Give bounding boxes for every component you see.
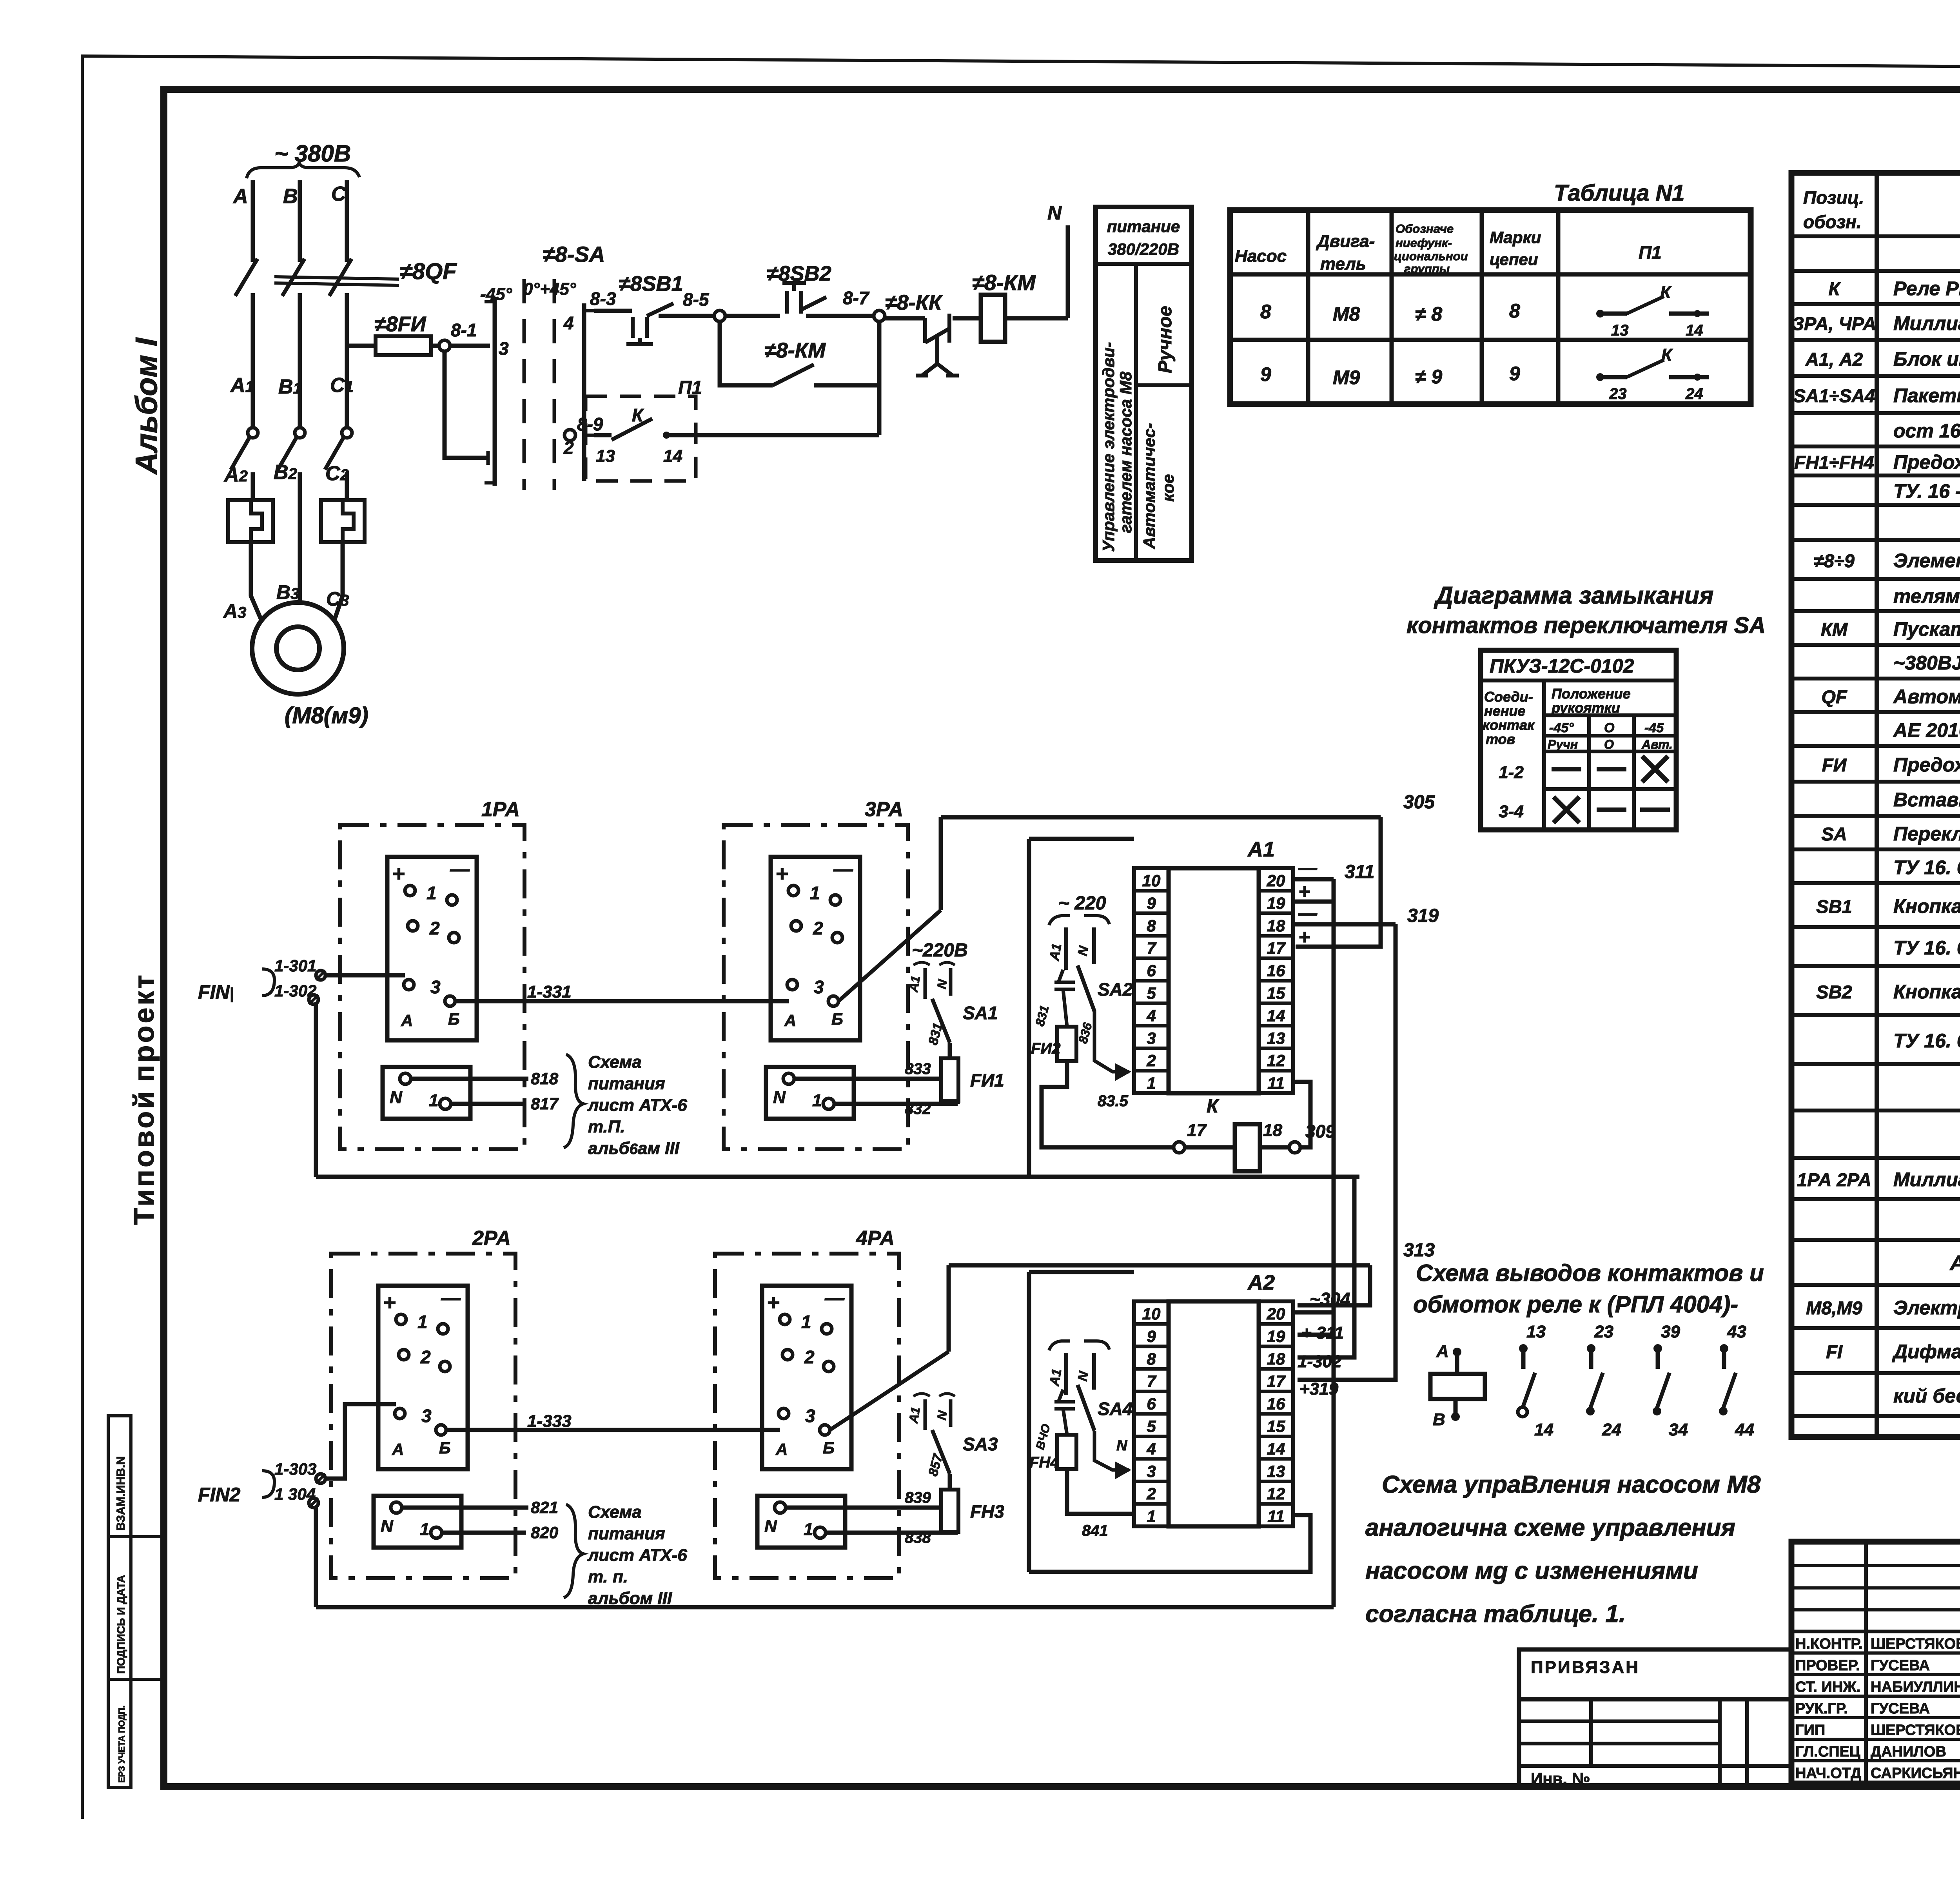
row 3-4 marks xyxy=(1553,797,1579,823)
svg-text:М8,М9: М8,М9 xyxy=(1806,1297,1862,1318)
svg-text:305: 305 xyxy=(1403,792,1435,813)
svg-text:SА1÷SА4: SА1÷SА4 xyxy=(1793,385,1875,406)
svg-text:8-5: 8-5 xyxy=(683,289,710,310)
svg-text:ШЕРСТЯКОВА: ШЕРСТЯКОВА xyxy=(1871,1722,1960,1738)
svg-text:SВ1: SВ1 xyxy=(1816,896,1852,917)
svg-text:+: + xyxy=(383,1290,396,1315)
svg-text:3: 3 xyxy=(1147,1029,1156,1047)
recorder 2РА dash-dot enclosure xyxy=(331,1254,515,1578)
1РА supply terminals box xyxy=(383,1067,470,1119)
phase A input line xyxy=(251,180,255,262)
svg-text:Насос: Насос xyxy=(1235,247,1287,266)
svg-text:1: 1 xyxy=(1147,1507,1156,1526)
svg-text:ПРОВЕР.: ПРОВЕР. xyxy=(1795,1657,1860,1674)
wire 833 xyxy=(794,1077,941,1081)
svg-text:838: 838 xyxy=(905,1529,931,1546)
svg-text:Ручн: Ручн xyxy=(1548,737,1578,751)
svg-text:А: А xyxy=(1436,1342,1449,1361)
svg-text:6: 6 xyxy=(1147,1395,1156,1413)
3РА supply terminals box xyxy=(766,1067,854,1119)
svg-text:РУК.ГР.: РУК.ГР. xyxy=(1795,1700,1848,1717)
wire 817 xyxy=(451,1102,526,1106)
svg-text:≠8QF: ≠8QF xyxy=(400,259,457,284)
bus 304 riser up to A2 terminal 20 xyxy=(1293,1312,1334,1607)
row 1-2 marks xyxy=(1552,767,1581,771)
svg-text:цепеи: цепеи xyxy=(1490,250,1538,269)
svg-text:~380ВJн-10А с приставкойПКЛ 20: ~380ВJн-10А с приставкойПКЛ 2004 xyxy=(1893,652,1960,674)
svg-text:ГЛ.СПЕЦ: ГЛ.СПЕЦ xyxy=(1795,1744,1860,1760)
svg-text:Кнопка управления КЕ-611УЗ: Кнопка управления КЕ-611УЗ исп. 23 xyxy=(1893,981,1960,1003)
svg-text:~304: ~304 xyxy=(1310,1289,1350,1309)
3РА instrument terminals box xyxy=(771,857,860,1040)
svg-text:ЕРЗ УЧЕТА ПОДП.: ЕРЗ УЧЕТА ПОДП. xyxy=(117,1706,127,1783)
svg-text:832: 832 xyxy=(905,1100,931,1118)
svg-text:3РА: 3РА xyxy=(865,798,903,821)
wire 839 xyxy=(786,1506,941,1510)
svg-text:обмоток реле к (РПЛ 4004)-: обмоток реле к (РПЛ 4004)- xyxy=(1413,1291,1738,1317)
svg-text:гателем насоса М8: гателем насоса М8 xyxy=(1116,371,1135,533)
svg-text:1-331: 1-331 xyxy=(527,982,572,1002)
wire 1-304 down to bus B xyxy=(314,1508,318,1607)
SA contact bar right xyxy=(582,303,586,481)
svg-text:313: 313 xyxy=(1403,1240,1435,1261)
svg-text:10: 10 xyxy=(1142,1305,1161,1323)
svg-text:1: 1 xyxy=(1147,1074,1156,1092)
svg-text:N: N xyxy=(764,1517,777,1536)
svg-text:+: + xyxy=(1298,880,1310,903)
svg-text:+: + xyxy=(1298,926,1310,949)
svg-text:ШЕРСТЯКОВА: ШЕРСТЯКОВА xyxy=(1871,1636,1960,1652)
svg-text:Схема выводов контактов и: Схема выводов контактов и xyxy=(1416,1260,1764,1286)
svg-text:34: 34 xyxy=(1669,1420,1688,1439)
svg-text:Положение: Положение xyxy=(1552,686,1631,702)
svg-text:≠8-SА: ≠8-SА xyxy=(543,242,605,267)
svg-text:1: 1 xyxy=(801,1312,811,1332)
svg-text:Обозначе: Обозначе xyxy=(1396,222,1454,236)
phase B input line xyxy=(298,180,302,262)
title block upper small rows xyxy=(1791,1564,1960,1567)
svg-text:А1: А1 xyxy=(906,975,923,994)
svg-text:Предохранитель ППТ-10 пл. Вст.: Предохранитель ППТ-10 пл. Вст. 6А xyxy=(1893,451,1960,473)
svg-text:14: 14 xyxy=(1267,1006,1285,1025)
svg-text:18: 18 xyxy=(1263,1121,1282,1140)
svg-text:~ 380В: ~ 380В xyxy=(274,140,351,167)
svg-text:≠ 8: ≠ 8 xyxy=(1415,303,1442,325)
svg-text:16: 16 xyxy=(1267,962,1285,980)
phase C input line xyxy=(345,180,349,262)
svg-text:Инв. №: Инв. № xyxy=(1531,1769,1590,1788)
svg-text:N: N xyxy=(1116,1437,1128,1454)
motor feeder B3 xyxy=(298,472,302,603)
svg-text:+: + xyxy=(392,861,405,886)
A1 assembly enclosure box xyxy=(1027,839,1031,1177)
svg-text:1-2: 1-2 xyxy=(1499,763,1524,782)
thermal element KK phase C xyxy=(321,500,365,542)
svg-text:20: 20 xyxy=(1267,871,1285,890)
function strip table Питание 380/220В xyxy=(1096,207,1192,561)
А1 terminal strip left xyxy=(1134,868,1169,1093)
svg-text:питание: питание xyxy=(1107,217,1180,236)
А1 terminal strip right xyxy=(1259,868,1293,1093)
svg-text:ТУ. 16 - 521.037-75: ТУ. 16 - 521.037-75 xyxy=(1893,480,1960,502)
svg-text:0°+45°: 0°+45° xyxy=(523,279,576,299)
phase A1 segment xyxy=(251,293,255,428)
fuse FН3 xyxy=(941,1490,958,1532)
svg-text:17: 17 xyxy=(1267,1372,1286,1390)
svg-text:1-302: 1-302 xyxy=(1298,1352,1342,1371)
fuse FН1 xyxy=(941,1058,958,1101)
svg-text:18: 18 xyxy=(1267,916,1285,935)
recorder 3РА dash-dot enclosure xyxy=(724,825,908,1149)
fuse 8FN on control tap xyxy=(347,344,376,348)
wire 821 xyxy=(402,1506,528,1510)
wire 4РА to 313 riser xyxy=(830,1352,949,1430)
recorder 1РА dash-dot enclosure xyxy=(340,825,524,1149)
svg-text:2: 2 xyxy=(420,1347,431,1367)
svg-text:1РА 2РА: 1РА 2РА xyxy=(1797,1169,1871,1190)
svg-text:Кнопка управления КЕ-ОПУЗ исп: Кнопка управления КЕ-ОПУЗ исп 24 xyxy=(1893,895,1960,917)
svg-text:833: 833 xyxy=(905,1060,931,1078)
terminal 1-301 xyxy=(316,971,325,980)
SA mechanical dashed link 1 xyxy=(523,279,526,490)
svg-text:10: 10 xyxy=(1142,871,1161,890)
svg-text:СТ. ИНЖ.: СТ. ИНЖ. xyxy=(1795,1679,1860,1695)
svg-text:3: 3 xyxy=(430,977,441,997)
switch SА2 lever xyxy=(1078,965,1094,1011)
wire 1-333 between 2РА and 4РА xyxy=(446,1428,780,1432)
svg-text:-45: -45 xyxy=(1644,720,1664,735)
svg-text:12: 12 xyxy=(1267,1051,1285,1070)
svg-text:О: О xyxy=(1604,737,1614,751)
fuse FН4 xyxy=(1063,1409,1067,1435)
vertical tie at node 8-7 xyxy=(877,321,882,435)
svg-text:тов: тов xyxy=(1486,731,1515,747)
svg-text:питания: питания xyxy=(588,1524,665,1543)
4РА supply terminals box xyxy=(757,1496,845,1548)
svg-text:83.5: 83.5 xyxy=(1098,1092,1129,1110)
svg-text:11: 11 xyxy=(1267,1507,1285,1526)
svg-text:Дифманометр мембранный элект: Дифманометр мембранный электричес- xyxy=(1892,1341,1960,1363)
svg-text:питания: питания xyxy=(588,1074,665,1093)
svg-text:8-1: 8-1 xyxy=(451,320,477,340)
svg-text:—: — xyxy=(450,858,470,880)
svg-text:24: 24 xyxy=(1602,1420,1621,1439)
svg-text:ТУ 16. 626.007-71: ТУ 16. 626.007-71 xyxy=(1893,937,1960,959)
svg-text:аналогична схеме управления: аналогична схеме управления xyxy=(1365,1514,1735,1541)
A2 assembly enclosure box xyxy=(1027,1272,1031,1572)
svg-text:П1: П1 xyxy=(1639,242,1662,263)
wire 818 xyxy=(411,1077,528,1081)
wire FН2 to K coil xyxy=(1042,1061,1174,1147)
privyazan box xyxy=(1519,1649,1791,1699)
svg-text:14: 14 xyxy=(663,446,682,466)
note schema pitaniya list ATX-6 (1) xyxy=(564,1054,583,1148)
svg-text:≠8-КМ: ≠8-КМ xyxy=(972,270,1036,295)
switch SА4 lever xyxy=(1078,1385,1094,1431)
svg-text:Альбом I: Альбом I xyxy=(129,338,163,475)
svg-text:15: 15 xyxy=(1267,1417,1285,1435)
svg-text:8: 8 xyxy=(1509,300,1520,322)
wire 838 xyxy=(826,1531,958,1535)
svg-text:~220В: ~220В xyxy=(912,940,968,961)
wire 1-331 between 1РА and 3РА xyxy=(455,999,789,1003)
svg-text:N: N xyxy=(390,1088,403,1107)
svg-text:О: О xyxy=(1604,720,1614,735)
svg-text:т.П.: т.П. xyxy=(588,1117,625,1136)
svg-text:13: 13 xyxy=(1267,1029,1285,1047)
svg-text:Элементы упрс8ления электродв: Элементы упрс8ления электродвига- xyxy=(1893,550,1960,572)
svg-text:17: 17 xyxy=(1267,939,1286,957)
phase C1 segment xyxy=(345,293,349,428)
svg-text:телями М8 , М9: телями М8 , М9 xyxy=(1893,585,1960,607)
wire FН4 to A2 terminal 1 xyxy=(1067,1469,1134,1514)
svg-text:ДАНИЛОВ: ДАНИЛОВ xyxy=(1871,1744,1946,1760)
svg-text:QF: QF xyxy=(1821,686,1847,707)
motor M8(M9) xyxy=(252,602,344,694)
relay K coil symbol with pins А and В xyxy=(1453,1348,1461,1356)
svg-text:FИ2: FИ2 xyxy=(1031,1040,1060,1057)
svg-text:SА4: SА4 xyxy=(1098,1399,1132,1419)
svg-text:КМ: КМ xyxy=(1821,619,1848,640)
svg-text:А: А xyxy=(401,1011,413,1030)
svg-text:Б: Б xyxy=(448,1010,460,1028)
switch SА1 with wire 831 xyxy=(948,1043,952,1058)
svg-text:М8: М8 xyxy=(1333,303,1360,325)
svg-text:насосом мg с изменениями: насосом мg с изменениями xyxy=(1365,1557,1698,1584)
svg-text:А: А xyxy=(775,1440,788,1459)
svg-text:Вставкай ПВД-1.: Вставкай ПВД-1. xyxy=(1893,789,1960,811)
svg-text:FН3: FН3 xyxy=(970,1501,1004,1522)
terminal 1-303 xyxy=(316,1474,325,1483)
svg-text:6: 6 xyxy=(1147,962,1156,980)
svg-text:3: 3 xyxy=(499,338,509,359)
svg-text:14: 14 xyxy=(1534,1420,1553,1439)
svg-text:3: 3 xyxy=(805,1406,815,1426)
wire 319 riser down to A2 terminal 17 xyxy=(1298,924,1396,1380)
svg-text:Б: Б xyxy=(439,1439,451,1457)
svg-text:П1: П1 xyxy=(678,377,702,398)
svg-text:Марки: Марки xyxy=(1490,228,1541,247)
svg-text:К: К xyxy=(1207,1096,1220,1117)
svg-text:С: С xyxy=(331,183,347,205)
svg-text:ПОДПИСЬ И ДАТА: ПОДПИСЬ И ДАТА xyxy=(115,1575,127,1674)
svg-text:FН4: FН4 xyxy=(1029,1454,1059,1471)
note schema pitaniya list ATX-6 (2) xyxy=(564,1504,583,1598)
svg-text:Реле РПЛ 4004 ТУ 16-523,554-7: Реле РПЛ 4004 ТУ 16-523,554-79, 220В xyxy=(1893,278,1960,299)
motor feeder C3 xyxy=(334,542,343,621)
svg-text:К: К xyxy=(1829,278,1841,299)
svg-text:1-301: 1-301 xyxy=(274,956,316,975)
svg-text:≠ 9: ≠ 9 xyxy=(1415,366,1442,388)
svg-text:Схема упраВления насосом М8: Схема упраВления насосом М8 xyxy=(1382,1471,1761,1498)
phase B1 segment xyxy=(298,293,302,428)
svg-text:—: — xyxy=(1298,903,1318,924)
svg-text:43: 43 xyxy=(1727,1322,1746,1341)
svg-text:обозн.: обозн. xyxy=(1803,212,1862,232)
svg-text:2: 2 xyxy=(1146,1484,1156,1503)
svg-text:А1: А1 xyxy=(1047,942,1064,962)
svg-text:1: 1 xyxy=(429,1091,438,1110)
interlock contact K with node 8-9 xyxy=(564,430,575,441)
svg-text:—: — xyxy=(824,1287,845,1309)
svg-text:М9: М9 xyxy=(1333,367,1360,388)
svg-text:12: 12 xyxy=(1267,1484,1285,1503)
svg-text:2: 2 xyxy=(813,918,823,938)
svg-text:рукоятки: рукоятки xyxy=(1551,700,1620,716)
svg-text:≠8FИ: ≠8FИ xyxy=(374,312,426,336)
svg-text:13: 13 xyxy=(1611,322,1629,339)
selector switch SA contact bar left xyxy=(493,297,497,486)
svg-text:А: А xyxy=(232,185,248,208)
switch SА3 with wire 857 xyxy=(948,1474,952,1490)
svg-text:Управление электродви-: Управление электродви- xyxy=(1099,342,1118,552)
svg-text:4РА: 4РА xyxy=(856,1227,895,1250)
svg-text:2РА: 2РА xyxy=(472,1227,511,1250)
svg-text:альбом III: альбом III xyxy=(588,1589,672,1608)
svg-text:кое: кое xyxy=(1159,474,1177,502)
svg-text:Автоматическии выключатель: Автоматическии выключатель xyxy=(1893,686,1960,708)
svg-text:1-333: 1-333 xyxy=(527,1412,572,1431)
svg-text:Соеди-: Соеди- xyxy=(1484,689,1533,705)
svg-text:+: + xyxy=(775,861,788,886)
svg-text:SВ2: SВ2 xyxy=(1816,982,1852,1002)
supply symbol А1/N for SА3 xyxy=(924,1399,927,1430)
svg-text:—: — xyxy=(441,1287,461,1309)
svg-text:818: 818 xyxy=(531,1069,559,1088)
svg-text:В: В xyxy=(283,185,298,208)
svg-text:ост 16.0. 526.001-77: ост 16.0. 526.001-77 xyxy=(1893,420,1960,442)
parts list table xyxy=(1791,173,1960,1437)
bus 302 riser to A2 terminal 18 xyxy=(1298,1177,1354,1357)
svg-text:8: 8 xyxy=(1147,1350,1156,1368)
svg-text:8-3: 8-3 xyxy=(590,289,616,309)
svg-text:(М8(м9): (М8(м9) xyxy=(285,703,368,728)
svg-text:ниефунк-: ниефунк- xyxy=(1396,236,1452,250)
bus wire 302 horizontal xyxy=(316,1175,1359,1179)
relay boundary dashed box П1 xyxy=(586,396,696,481)
svg-text:3: 3 xyxy=(1147,1462,1156,1481)
svg-text:Аппаратура по месту: Аппаратура по месту xyxy=(1949,1251,1960,1275)
impulse unit А2 body xyxy=(1169,1301,1259,1526)
svg-text:—: — xyxy=(833,858,853,880)
svg-text:НАЧ.ОТД: НАЧ.ОТД xyxy=(1795,1765,1861,1782)
svg-text:319: 319 xyxy=(1407,905,1439,926)
wire 8-3 xyxy=(594,309,632,313)
svg-text:9: 9 xyxy=(1147,894,1156,912)
wire SA2 pole to A1 terminal 2 xyxy=(1094,1011,1129,1072)
svg-text:1: 1 xyxy=(417,1312,428,1332)
wire 1-303 to 2РА xyxy=(325,1404,396,1479)
svg-text:15: 15 xyxy=(1267,984,1285,1002)
svg-text:Н.КОНТР.: Н.КОНТР. xyxy=(1795,1636,1863,1652)
svg-text:20: 20 xyxy=(1267,1305,1285,1323)
svg-text:В: В xyxy=(1433,1410,1445,1429)
svg-text:Схема: Схема xyxy=(588,1052,642,1072)
svg-text:23: 23 xyxy=(1594,1322,1613,1341)
svg-text:А: А xyxy=(392,1440,404,1459)
svg-text:ТУ 16. 626. 007- 71: ТУ 16. 626. 007- 71 xyxy=(1893,1030,1960,1052)
contactor KM main contacts xyxy=(248,428,258,438)
svg-text:тель: тель xyxy=(1320,254,1366,274)
svg-text:7: 7 xyxy=(1147,1372,1156,1390)
svg-text:44: 44 xyxy=(1735,1420,1754,1439)
svg-text:5: 5 xyxy=(1147,984,1156,1002)
svg-text:2: 2 xyxy=(429,918,440,938)
1РА instrument terminals box xyxy=(387,857,477,1040)
thermal element KK phase A xyxy=(228,500,273,542)
svg-text:ПРИВЯЗАН: ПРИВЯЗАН xyxy=(1531,1658,1640,1677)
svg-text:НАБИУЛЛИНА: НАБИУЛЛИНА xyxy=(1871,1679,1960,1695)
svg-text:1РА: 1РА xyxy=(481,798,520,821)
svg-text:Электродвигатель АО2-21-4: Электродвигатель АО2-21-4 1.1кВт xyxy=(1893,1297,1960,1319)
svg-text:14: 14 xyxy=(1686,322,1703,339)
wire 1-302 down to bus xyxy=(314,1004,318,1177)
svg-text:Таблица N1: Таблица N1 xyxy=(1554,180,1685,206)
svg-text:~ 220: ~ 220 xyxy=(1058,893,1106,914)
svg-text:Миллиамперметр самопишущий К: Миллиамперметр самопишущий КСУ2-003 xyxy=(1893,312,1960,334)
svg-text:4: 4 xyxy=(1146,1006,1156,1025)
А2 terminal strip left xyxy=(1134,1301,1169,1526)
2РА supply terminals box xyxy=(374,1496,461,1548)
svg-text:FI: FI xyxy=(1826,1341,1843,1362)
svg-text:19: 19 xyxy=(1267,894,1285,912)
svg-text:4: 4 xyxy=(1146,1439,1156,1458)
svg-text:Б: Б xyxy=(831,1010,843,1028)
svg-text:А1, А2: А1, А2 xyxy=(1805,349,1863,370)
svg-text:ВЗАМ.ИНВ.N: ВЗАМ.ИНВ.N xyxy=(114,1456,127,1531)
A2 assembly enclosure bottom to pin 11 xyxy=(1029,1515,1310,1572)
svg-text:Ручное: Ручное xyxy=(1155,306,1176,373)
4РА instrument terminals box xyxy=(762,1286,851,1469)
margin stamp strip bottom-left xyxy=(108,1416,131,1787)
svg-text:5: 5 xyxy=(1147,1417,1156,1435)
svg-text:14: 14 xyxy=(1267,1439,1285,1458)
svg-text:7: 7 xyxy=(1147,939,1156,957)
svg-text:Двига-: Двига- xyxy=(1316,232,1375,251)
wire 313 xyxy=(949,1263,1370,1268)
title block main frame xyxy=(1791,1542,1960,1784)
svg-text:16: 16 xyxy=(1267,1395,1285,1413)
svg-text:Б: Б xyxy=(823,1439,835,1457)
svg-text:18: 18 xyxy=(1267,1350,1285,1368)
wire 820 xyxy=(442,1531,526,1535)
svg-text:1-303: 1-303 xyxy=(274,1460,316,1478)
svg-text:Пакетный выключатель ПВ2-10 и: Пакетный выключатель ПВ2-10 исп. 2 xyxy=(1893,385,1960,406)
svg-text:Диаграмма замыкания: Диаграмма замыкания xyxy=(1434,582,1713,609)
svg-text:—: — xyxy=(1298,858,1318,878)
wire SA4 pole to A2 terminal 3 xyxy=(1094,1431,1129,1470)
svg-text:17: 17 xyxy=(1187,1121,1207,1140)
svg-text:т. п.: т. п. xyxy=(588,1567,628,1586)
svg-text:841: 841 xyxy=(1082,1522,1108,1539)
svg-text:9: 9 xyxy=(1260,363,1271,385)
svg-text:39: 39 xyxy=(1661,1322,1680,1341)
svg-text:820: 820 xyxy=(531,1523,558,1542)
svg-text:9: 9 xyxy=(1147,1327,1156,1345)
svg-text:380/220В: 380/220В xyxy=(1108,240,1179,258)
svg-text:ГУСЕВА: ГУСЕВА xyxy=(1871,1700,1930,1717)
svg-text:Предохранитель ПРС-6УЗ-Пс плав: Предохранитель ПРС-6УЗ-Пс плавкои xyxy=(1893,754,1960,776)
svg-text:ТУ 16. 626.047-74: ТУ 16. 626.047-74 xyxy=(1893,856,1960,878)
svg-text:Позиц.: Позиц. xyxy=(1803,187,1864,208)
svg-text:FИ: FИ xyxy=(1822,755,1847,775)
А2 terminal strip right xyxy=(1259,1301,1293,1526)
A1 right side wires 311/319 xyxy=(1293,877,1334,882)
svg-text:Пускатель магнитный ПМЛ-11000: Пускатель магнитный ПМЛ-110004 xyxy=(1893,618,1960,640)
terminal 1-304 xyxy=(309,1498,318,1508)
svg-text:нение: нение xyxy=(1484,703,1526,719)
svg-text:К: К xyxy=(632,405,644,425)
